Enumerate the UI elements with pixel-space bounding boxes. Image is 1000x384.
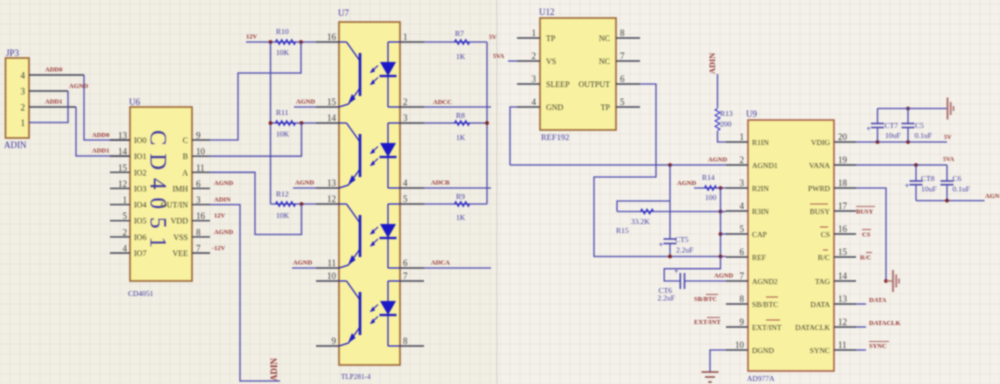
svg-text:EXT/INT: EXT/INT [752,323,782,332]
svg-text:3: 3 [21,87,26,97]
svg-text:R15: R15 [616,226,629,235]
net label 5VA on U12 pin2 [493,53,517,61]
svg-text:13: 13 [118,131,128,141]
wire R15 AGND U-turn [617,201,670,212]
wire CT6 branch [664,257,726,282]
svg-text:U9: U9 [746,109,757,119]
wire 5V vertical rail [486,42,488,204]
wire U12 GND to AGND row [510,107,517,165]
svg-text:16: 16 [196,211,206,221]
wire TAG to ground [886,280,893,282]
svg-text:AGND: AGND [293,260,312,267]
svg-text:16: 16 [327,32,337,42]
junction C5 [906,140,910,144]
svg-text:JP3: JP3 [6,48,20,58]
resistor R14 100 [694,173,726,202]
wire ADCC U7 pin2 [424,99,491,107]
svg-text:+: + [674,267,679,276]
net label AGND U7 pin15 [294,99,316,108]
svg-text:5: 5 [403,194,408,204]
svg-text:5VA: 5VA [493,53,505,60]
svg-text:10: 10 [735,340,745,350]
svg-text:0.1uF: 0.1uF [953,185,971,194]
ground symbol DGND [702,371,719,373]
capacitor CT8 10uF [905,165,937,201]
svg-text:19: 19 [838,155,848,165]
svg-text:+: + [866,125,871,134]
ground symbol top right [947,98,949,120]
junction C5 top rail [906,107,910,111]
svg-text:10uF: 10uF [885,131,901,140]
voltage reference U12 REF192 [517,7,640,142]
U7 phototransistor cell 2 [339,123,378,188]
optocoupler U7 TLP281-4 [338,8,400,381]
wire U6 OUT/IN to ADIN label [210,205,280,381]
svg-text:GND: GND [546,103,564,112]
wire PWRD down to TAG/ground [856,188,886,281]
svg-text:1K: 1K [456,133,466,142]
svg-text:2: 2 [123,227,128,237]
svg-text:4: 4 [403,178,408,188]
resistor R10 10K [276,27,296,57]
wire VDIG 5V row [856,141,947,143]
capacitor CT6 2.2uF [658,267,685,303]
svg-text:2.2uF: 2.2uF [676,246,694,255]
svg-text:11: 11 [327,258,336,268]
svg-text:AGND: AGND [714,273,733,280]
svg-text:1K: 1K [456,52,466,61]
svg-text:AGND: AGND [214,229,233,236]
net label AGND U7 pin13 [293,180,316,189]
wire AGND row REF192 GND to U9 AGND1 [510,164,726,166]
svg-text:VANA: VANA [809,161,830,170]
U7 phototransistor cell 1 [339,42,378,107]
svg-text:R12: R12 [276,190,289,199]
svg-text:TLP281-4: TLP281-4 [341,373,371,381]
junction CT8 [914,163,918,167]
svg-text:+: + [659,241,664,250]
svg-text:ADD0: ADD0 [92,132,109,139]
U7 right pin stubs [400,32,424,346]
svg-text:2: 2 [403,97,408,107]
svg-text:DATA: DATA [810,300,830,309]
svg-text:CS: CS [862,232,871,239]
wire U6 B to R11/U7 pin14 [210,123,302,156]
svg-text:VDIG: VDIG [811,138,830,147]
svg-text:5V: 5V [489,34,497,41]
svg-text:12: 12 [327,194,336,204]
svg-text:AGND: AGND [296,99,315,106]
svg-text:CT7: CT7 [885,121,899,130]
wire CT5 branch vertical [669,165,671,257]
svg-text:8: 8 [196,227,201,237]
svg-text:1: 1 [532,28,537,38]
svg-text:9: 9 [196,131,201,141]
U7 left pin stubs [316,32,339,346]
svg-text:15: 15 [838,247,848,257]
svg-text:8: 8 [620,28,625,38]
junction R8 right [485,121,489,125]
svg-text:7: 7 [196,244,201,254]
svg-text:SLEEP: SLEEP [546,80,570,89]
svg-text:AGND: AGND [677,180,696,187]
svg-text:12: 12 [118,179,127,189]
wire VANA 5VA row [856,164,947,166]
U7 LED cell 2 [380,123,401,188]
capacitor CT7 10uF [866,121,900,140]
svg-text:9: 9 [332,336,337,346]
svg-text:R13: R13 [720,109,733,118]
svg-text:AGND2: AGND2 [752,277,778,286]
svg-text:VEE: VEE [172,249,188,258]
svg-text:10uF: 10uF [921,185,937,194]
U7 phototransistor cell 4 [339,281,378,346]
net label EXT/INT U9 pin9 [694,318,721,327]
svg-text:SYNC: SYNC [869,343,887,350]
svg-text:6: 6 [196,179,201,189]
wire ADIN to R13 [717,74,719,108]
net label BUSY U9 pin17 [856,207,875,216]
svg-text:VS: VS [546,57,556,66]
wire JP3 pin2 ADD1 [29,99,130,157]
svg-text:2: 2 [740,155,745,165]
svg-text:ADCA: ADCA [431,260,450,267]
junction at R12 right [300,202,304,206]
wire top rail to ground [878,109,948,143]
capacitor C6 0.1uF [941,165,971,201]
svg-text:TAG: TAG [815,277,831,286]
svg-text:CS: CS [821,230,830,239]
svg-text:6: 6 [620,74,625,84]
svg-text:IO7: IO7 [134,249,146,258]
svg-text:17: 17 [838,201,848,211]
svg-text:5VA: 5VA [943,156,955,163]
wire JP3 pin4 ADD0 [29,67,130,141]
svg-text:R/C: R/C [860,255,872,262]
svg-text:DATACLK: DATACLK [795,323,830,332]
junction C6 bottom [945,199,949,203]
svg-text:TP: TP [546,34,556,43]
svg-text:10K: 10K [276,48,290,57]
svg-text:16: 16 [838,224,848,234]
svg-text:DATACLK: DATACLK [869,320,901,327]
svg-text:R8: R8 [456,111,465,120]
svg-text:R10: R10 [276,27,289,36]
svg-text:IO4: IO4 [134,201,146,210]
svg-text:AGND: AGND [295,180,314,187]
svg-text:5: 5 [123,211,128,221]
svg-text:R2IN: R2IN [752,184,769,193]
svg-text:1: 1 [403,32,408,42]
svg-text:REF192: REF192 [541,132,569,142]
svg-text:5V: 5V [944,134,952,141]
svg-text:C5: C5 [915,121,924,130]
connector JP3 [4,48,29,150]
resistor R13 200 [715,109,733,131]
svg-text:NC: NC [599,57,610,66]
svg-text:C6: C6 [953,174,962,183]
wire U12 OUTPUT loop to U9 REF [594,84,726,257]
svg-text:4: 4 [532,97,537,107]
wire DGND to ground [710,350,726,372]
svg-text:8: 8 [403,336,408,346]
wire CAP row to U9 pin5 [721,233,729,235]
svg-text:+: + [905,182,910,191]
wire ADCA U7 pin6 [424,260,491,269]
svg-text:R7: R7 [455,29,464,38]
svg-text:SB/BTC: SB/BTC [752,300,778,309]
svg-text:IO5: IO5 [134,217,146,226]
svg-text:OUTPUT: OUTPUT [578,80,610,89]
svg-text:CT8: CT8 [921,174,935,183]
svg-text:5: 5 [740,224,745,234]
ADC U9 AD977A [726,109,856,383]
svg-text:ADIN: ADIN [708,53,717,74]
svg-text:IO0: IO0 [134,136,146,145]
svg-text:SYNC: SYNC [810,346,830,355]
junction CT5 bottom on REF row [668,255,672,259]
svg-text:4: 4 [123,244,128,254]
wire AGND rail bottom of caps [916,200,985,202]
svg-text:1: 1 [740,132,745,142]
svg-text:100: 100 [705,193,717,202]
svg-text:15: 15 [327,97,337,107]
junction at R10 right [299,40,303,44]
junction R14 right [719,186,723,190]
wire ADCB U7 pin4 [424,180,491,189]
svg-text:ADIN: ADIN [269,357,279,381]
svg-text:ADD0: ADD0 [45,67,62,74]
svg-text:R1IN: R1IN [752,138,769,147]
net label DATA U9 pin13 [856,297,887,304]
svg-text:200: 200 [720,120,732,129]
junction CT6 branch on REF row [719,255,723,259]
svg-text:14: 14 [838,271,848,281]
svg-text:14: 14 [327,113,337,123]
svg-text:IMH: IMH [172,184,188,193]
svg-text:AD977A: AD977A [747,374,775,383]
capacitor CT5 2.2uF [659,235,694,255]
overlines on U9 pin names [766,204,828,320]
svg-text:CT5: CT5 [675,235,689,244]
U7 phototransistor cell 3 [339,204,378,268]
wire JP3 pin3-pin1 AGND [29,83,88,123]
svg-text:2: 2 [21,103,26,113]
resistor R8 1K [424,111,487,142]
svg-text:BUSY: BUSY [856,209,874,216]
svg-text:10K: 10K [276,211,290,220]
svg-text:-12V: -12V [212,245,226,252]
net label RC U9 pin15 [860,253,872,262]
svg-text:U6: U6 [129,97,140,107]
svg-text:R9: R9 [456,192,465,201]
svg-text:B: B [183,152,188,161]
resistor R12 10K [271,190,317,221]
svg-text:4: 4 [740,201,745,211]
svg-text:0.1uF: 0.1uF [915,131,933,140]
svg-text:7: 7 [620,51,625,61]
svg-text:1: 1 [21,118,26,128]
net label DATACLK U9 pin12 [856,320,901,327]
wire 12V vertical feed R10-R11-R12 [270,42,272,204]
svg-text:ADIN: ADIN [214,197,231,204]
svg-text:R14: R14 [702,173,715,182]
svg-text:8: 8 [740,294,745,304]
svg-text:10: 10 [327,271,337,281]
wire 12V rail to U7 pin16 [246,41,316,43]
svg-text:U7: U7 [338,8,349,18]
svg-text:R/C: R/C [818,253,830,262]
svg-text:ADIN: ADIN [4,140,27,150]
svg-text:11: 11 [838,340,847,350]
svg-text:CD4051: CD4051 [128,289,154,298]
svg-text:CAP: CAP [752,230,767,239]
svg-text:C: C [183,136,188,145]
svg-text:R11: R11 [276,108,289,117]
resistor R9 1K [424,192,487,222]
junction at R11 right [300,121,304,125]
svg-text:CD4051: CD4051 [146,130,171,256]
svg-text:4: 4 [21,71,26,81]
svg-text:SB/BTC: SB/BTC [694,296,717,303]
svg-text:AGND: AGND [214,180,233,187]
junction R15 row / R3IN [719,210,723,214]
svg-text:OUT/IN: OUT/IN [161,201,188,210]
resistor R11 10K [271,108,317,139]
junction TAG row [884,279,888,283]
svg-text:13: 13 [838,294,848,304]
wire U6 C to R10/U7 pin16 [210,42,301,140]
svg-text:IO1: IO1 [134,152,146,161]
svg-text:2.2uF: 2.2uF [658,294,676,303]
svg-text:3: 3 [403,113,408,123]
svg-text:IO2: IO2 [134,168,146,177]
svg-text:ADD1: ADD1 [45,99,62,106]
svg-text:DATA: DATA [869,297,887,304]
capacitor C5 0.1uF [902,121,933,140]
svg-text:VSS: VSS [173,233,188,242]
svg-text:12V: 12V [214,213,226,220]
svg-text:3: 3 [532,74,537,84]
svg-text:TP: TP [601,103,611,112]
resistor R7 1K [424,29,487,61]
svg-text:AGND: AGND [708,157,727,164]
svg-text:IO3: IO3 [134,184,146,193]
junction at R10 left [269,40,273,44]
svg-text:ADCB: ADCB [431,180,450,187]
svg-text:EXT/INT: EXT/INT [694,319,721,326]
svg-text:1K: 1K [456,213,466,222]
junction AGND row / CT5 branch [668,163,672,167]
svg-text:REF: REF [752,253,766,262]
svg-text:NC: NC [599,34,610,43]
svg-text:11: 11 [196,163,205,173]
U7 LED cell 4 [380,281,401,346]
junction CAP row [719,232,723,236]
svg-text:12: 12 [838,317,847,327]
net label CS U9 pin16 [862,230,871,239]
svg-text:PWRD: PWRD [808,184,830,193]
svg-text:1: 1 [123,195,128,205]
svg-text:7: 7 [740,271,745,281]
net label SYNC U9 pin11 [856,342,889,351]
svg-text:10: 10 [196,147,206,157]
svg-text:VDD: VDD [171,217,189,226]
svg-text:10K: 10K [276,130,290,139]
svg-text:18: 18 [838,178,848,188]
svg-text:6: 6 [403,258,408,268]
svg-text:33.2K: 33.2K [631,217,650,226]
svg-text:5: 5 [620,97,625,107]
net label SB/BTC U9 pin8 [694,295,718,304]
wire R2IN-R3IN-CAP-REF vertical [720,188,722,257]
U7 LED cell 3 [380,204,401,268]
svg-text:3: 3 [740,178,745,188]
junction at R11 left [269,121,273,125]
svg-text:ADCC: ADCC [433,99,452,106]
svg-text:IO6: IO6 [134,233,146,242]
svg-text:14: 14 [118,147,128,157]
svg-text:2: 2 [532,51,537,61]
svg-text:20: 20 [838,132,848,142]
svg-text:AGND1: AGND1 [752,161,778,170]
svg-text:3: 3 [196,195,201,205]
svg-text:R3IN: R3IN [752,207,769,216]
svg-text:15: 15 [118,163,128,173]
U7 LED cell 1 [380,42,401,107]
svg-text:DGND: DGND [752,346,774,355]
resistor R15 33.2K [616,209,726,235]
svg-text:6: 6 [740,247,745,257]
ground symbol TAG [892,270,894,292]
wire U6 A to R12/U7 pin12 [210,172,302,234]
svg-text:9: 9 [740,317,745,327]
svg-text:U12: U12 [539,7,555,17]
svg-text:13: 13 [327,178,337,188]
svg-text:A: A [182,168,188,177]
wire R13 to U9 R1IN [718,131,727,142]
svg-text:BUSY: BUSY [810,207,831,216]
net label AGND U7 pin11 [292,260,316,269]
junction CT7 [876,140,880,144]
svg-text:ADD1: ADD1 [92,148,109,155]
svg-text:AGND: AGND [985,193,1000,200]
svg-text:12V: 12V [246,34,258,41]
svg-text:AGND: AGND [69,83,88,90]
svg-text:7: 7 [403,271,408,281]
analog mux U6 CD4051 [110,97,210,298]
